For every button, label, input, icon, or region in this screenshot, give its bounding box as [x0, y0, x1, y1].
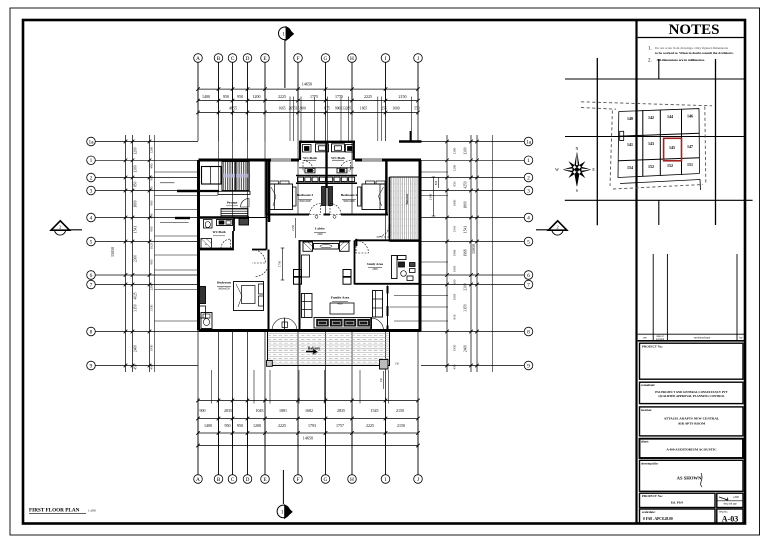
bedroom4 wardrobe — [328, 187, 333, 206]
svg-text:2300: 2300 — [134, 255, 138, 262]
svg-text:3150: 3150 — [464, 304, 468, 311]
family tv unit — [302, 255, 310, 277]
family wall stub — [356, 239, 358, 246]
svg-text:Do not scale from drawings. On: Do not scale from drawings. Only figured… — [655, 46, 729, 50]
svg-text:2: 2 — [90, 175, 93, 181]
svg-text:3150: 3150 — [150, 304, 154, 311]
svg-text:J: J — [417, 56, 419, 62]
bedroom4 right wall — [385, 160, 387, 215]
svg-text:3600x3000: 3600x3000 — [343, 200, 355, 203]
svg-text:1200: 1200 — [253, 423, 261, 428]
svg-text:2150: 2150 — [397, 423, 405, 428]
plot row line 1 — [618, 133, 699, 136]
grid bubble 5 left — [87, 237, 96, 246]
grid bubble 6 left — [87, 271, 96, 280]
svg-text:Bedroom: Bedroom — [217, 281, 231, 285]
svg-text:2150: 2150 — [399, 94, 407, 99]
compass rose — [563, 153, 590, 187]
grid bubble 7 right — [524, 280, 533, 289]
road line vertical d — [715, 59, 717, 225]
grid row 6 right line — [421, 274, 524, 276]
lower stair treads hatch — [221, 208, 248, 210]
grid bubble E top — [261, 54, 270, 63]
svg-text:1665: 1665 — [360, 106, 367, 110]
svg-text:2.: 2. — [648, 59, 652, 64]
svg-text:hc: hc — [205, 243, 207, 246]
svg-text:15050: 15050 — [471, 244, 476, 254]
svg-text:F: F — [297, 477, 300, 483]
svg-text:1: 1 — [90, 158, 93, 164]
svg-text:1200: 1200 — [134, 147, 138, 154]
grid bubble 3 right — [524, 186, 533, 195]
grid row 9 right line — [421, 365, 524, 367]
bedroom4 door — [330, 204, 341, 215]
wall top right — [355, 159, 421, 162]
bedroom3 window — [271, 158, 291, 161]
grid line C — [232, 63, 234, 101]
grid line B interior — [218, 141, 220, 191]
svg-text:1665: 1665 — [453, 265, 457, 272]
porch witness a — [160, 182, 174, 184]
master bed — [234, 282, 264, 311]
grid bubble C bottom — [228, 475, 237, 484]
grid row 5 right line — [421, 241, 524, 243]
svg-text:2,000: 2,000 — [733, 496, 740, 499]
svg-text:1200: 1200 — [150, 146, 154, 153]
bottom dimension ticks — [196, 399, 200, 403]
svg-text:4: 4 — [527, 215, 530, 221]
wc door arc — [221, 239, 231, 249]
porch wall top — [177, 190, 199, 192]
bedroom4 window — [362, 158, 382, 161]
grid bubble 9 right — [524, 361, 533, 370]
svg-text:2225: 2225 — [366, 423, 374, 428]
svg-text:revision/issue: revision/issue — [694, 336, 711, 340]
wall below stair — [199, 216, 250, 218]
svg-text:dwg no.:: dwg no.: — [719, 511, 728, 514]
right dimension vertical fine — [446, 135, 448, 372]
svg-text:revision: revision — [656, 338, 665, 341]
wall bottom — [199, 329, 422, 332]
svg-text:2150: 2150 — [396, 408, 404, 413]
stair treads hatch — [221, 162, 223, 191]
bedroom row bottom wall a — [267, 214, 310, 216]
svg-text:1665: 1665 — [453, 293, 457, 300]
svg-text:5: 5 — [90, 239, 93, 245]
svg-text:2300: 2300 — [464, 283, 468, 290]
grid row 8 right line — [421, 331, 524, 333]
svg-text:1968: 1968 — [464, 249, 468, 256]
family coffee table — [330, 303, 354, 314]
svg-text:H: H — [350, 477, 354, 483]
grid line C interior — [232, 141, 234, 218]
study witness lines — [394, 295, 421, 297]
right dimension vertical outer — [492, 135, 494, 372]
svg-text:AS SHOWN: AS SHOWN — [677, 476, 702, 481]
master dresser — [200, 306, 206, 318]
master wardrobe — [200, 287, 206, 304]
balcony door arcs — [272, 318, 285, 331]
stair block south wall — [199, 190, 220, 192]
stair closet — [202, 167, 222, 185]
svg-text:2225: 2225 — [278, 94, 286, 99]
svg-text:152: 152 — [667, 163, 673, 168]
grid line J — [417, 63, 419, 101]
grid bubble J bottom — [414, 475, 423, 484]
title panel divider — [635, 20, 637, 524]
wall right — [419, 160, 422, 331]
master door arc — [255, 263, 269, 277]
left dimension vertical inner — [154, 135, 156, 372]
grid row 8 left line — [96, 331, 199, 333]
svg-text:450: 450 — [134, 364, 138, 370]
road line vertical c — [658, 59, 660, 79]
svg-text:600: 600 — [453, 279, 457, 284]
grid bubble B bottom — [214, 475, 223, 484]
site boundary inner — [618, 109, 700, 178]
svg-text:2400: 2400 — [134, 345, 138, 352]
svg-text:B: B — [217, 56, 221, 62]
grid row 5 left line — [96, 241, 199, 243]
svg-text:Ed. P0.9: Ed. P0.9 — [671, 501, 683, 505]
svg-text:PROJECT No.:: PROJECT No.: — [642, 345, 663, 349]
grid bubble 1a left — [87, 137, 96, 146]
left dimension vertical coarse — [132, 135, 134, 372]
grid line H interior — [351, 141, 353, 215]
svg-text:152: 152 — [648, 164, 654, 169]
svg-text:N: N — [575, 146, 578, 151]
svg-text:1775: 1775 — [335, 94, 343, 99]
svg-text:WC/Bath: WC/Bath — [213, 230, 226, 234]
svg-text:14650: 14650 — [303, 436, 313, 441]
wall top left — [199, 159, 300, 162]
svg-text:WC/Bath: WC/Bath — [303, 156, 317, 160]
svg-text:1400: 1400 — [202, 94, 210, 99]
bedroom3 bed — [270, 184, 293, 210]
grid bubble 1 right — [524, 156, 533, 165]
svg-text:950: 950 — [223, 94, 229, 99]
svg-text:2835: 2835 — [337, 408, 345, 413]
svg-text:4025: 4025 — [134, 292, 138, 299]
svg-text:950: 950 — [237, 94, 243, 99]
svg-text:14650: 14650 — [302, 82, 312, 87]
grid row 9 left line — [96, 365, 199, 367]
svg-text:1950: 1950 — [453, 344, 457, 351]
grid line D — [247, 63, 249, 101]
svg-text:2835: 2835 — [224, 408, 232, 413]
study left wall — [354, 240, 356, 284]
grid bubble J top — [414, 54, 423, 63]
svg-text:1200: 1200 — [453, 164, 457, 171]
bath block left wall — [299, 141, 301, 160]
svg-text:145: 145 — [669, 145, 675, 150]
grid bubble 7 left — [87, 280, 96, 289]
svg-text:W: W — [555, 167, 559, 172]
bedroom4 desk strip — [358, 187, 362, 206]
svg-text:drawing title:: drawing title: — [641, 461, 658, 465]
bath door arcs — [303, 161, 314, 172]
svg-text:700: 700 — [150, 186, 154, 191]
bath block top wall — [299, 141, 355, 143]
svg-text:1793: 1793 — [308, 423, 316, 428]
svg-text:Study Area: Study Area — [367, 262, 384, 266]
svg-text:FIRST FLOOR PLAN: FIRST FLOOR PLAN — [29, 508, 80, 514]
balcony outline — [268, 331, 390, 366]
right balcony hatch — [391, 178, 418, 241]
svg-text:G: G — [324, 56, 328, 62]
grid bubble H bottom — [348, 475, 357, 484]
svg-text:2: 2 — [556, 225, 558, 230]
svg-text:Family Area: Family Area — [331, 296, 350, 300]
top dimension ticks — [196, 87, 200, 91]
terrace dim — [433, 177, 435, 216]
terrace bottom edge — [390, 240, 421, 242]
terrace left wall — [389, 177, 391, 242]
svg-text:2225: 2225 — [278, 423, 286, 428]
revision table header — [638, 333, 745, 335]
grid bubble D top — [243, 54, 252, 63]
svg-text:8: 8 — [90, 329, 93, 335]
svg-text:6: 6 — [527, 273, 530, 279]
interior dimension 2150 — [295, 218, 297, 238]
grid bubble 6 right — [524, 271, 533, 280]
plot column line 2 — [659, 110, 661, 176]
svg-text:4250: 4250 — [464, 181, 468, 188]
svg-text:900: 900 — [150, 226, 154, 231]
grid row 2 left line — [96, 177, 199, 179]
grid bubble B top — [214, 54, 223, 63]
grid line B — [218, 63, 220, 101]
svg-text:900513285: 900513285 — [335, 106, 351, 110]
grid row 1 right line — [421, 159, 524, 161]
svg-text:818: 818 — [435, 180, 438, 185]
plot 145 highlight — [664, 138, 682, 161]
svg-text:150: 150 — [380, 377, 383, 382]
top witness lines — [197, 85, 199, 116]
svg-text:3600x3000: 3600x3000 — [299, 200, 311, 203]
scale date row — [640, 493, 716, 507]
svg-text:1800: 1800 — [134, 200, 138, 207]
svg-text:A: A — [196, 56, 200, 62]
svg-text:6: 6 — [90, 273, 93, 279]
svg-text:1682: 1682 — [305, 408, 313, 413]
bottom balcony hatch — [268, 334, 390, 364]
svg-text:142: 142 — [648, 115, 654, 120]
grid row 7 left line — [96, 284, 199, 286]
client box — [640, 439, 744, 458]
svg-text:147: 147 — [687, 144, 693, 149]
svg-text:I: I — [385, 477, 387, 483]
svg-text:1950: 1950 — [311, 353, 317, 356]
svg-text:550: 550 — [414, 106, 420, 110]
svg-text:1200: 1200 — [253, 94, 261, 99]
revision table column 2 — [666, 254, 668, 341]
wc shower — [201, 239, 212, 249]
stair door arc — [241, 199, 250, 208]
balcony door arc right — [371, 318, 384, 331]
svg-text:A 400 AUDITORIUM ACOUSTIC: A 400 AUDITORIUM ACOUSTIC — [666, 448, 717, 452]
grid bubble 2 left — [87, 173, 96, 182]
grid row 7 right line — [421, 284, 524, 286]
svg-text:2400: 2400 — [464, 345, 468, 352]
grid bubble 1a right — [524, 137, 533, 146]
plot column line 3 — [681, 109, 683, 175]
grid line G — [325, 63, 327, 101]
grid line A — [197, 63, 199, 101]
svg-text:140: 140 — [627, 116, 633, 121]
grid row 1a right line — [421, 141, 524, 143]
svg-text:1400: 1400 — [204, 423, 212, 428]
svg-text:2400: 2400 — [317, 233, 323, 236]
svg-text:1750: 1750 — [278, 260, 282, 267]
porch witness c — [160, 222, 189, 224]
svg-text:consultant:: consultant: — [641, 383, 655, 387]
grid row 4 left line — [96, 217, 199, 219]
job number cell — [717, 493, 743, 507]
study top wall — [355, 239, 420, 241]
master closet bottom — [201, 313, 212, 329]
stair lower flight — [221, 209, 248, 218]
svg-text:3600x4250: 3600x4250 — [218, 287, 230, 290]
svg-text:Bedroom 3: Bedroom 3 — [297, 193, 314, 197]
grid bubble 8 right — [524, 327, 533, 336]
corridor door arc — [252, 250, 266, 264]
grid line E — [264, 63, 266, 101]
study entry arc — [356, 241, 369, 254]
grid bubble G bottom — [321, 475, 330, 484]
grid bubble F top — [294, 54, 303, 63]
family armchair — [373, 291, 383, 318]
grid bubble 4 left — [87, 213, 96, 222]
revision table column 3 — [736, 254, 738, 341]
section marker right — [536, 221, 567, 235]
svg-text:A-03: A-03 — [722, 514, 738, 523]
section marker left — [51, 221, 82, 235]
svg-text:S: S — [576, 188, 578, 193]
svg-text:900: 900 — [200, 408, 206, 413]
svg-text:AIR APTS ROOM: AIR APTS ROOM — [678, 422, 706, 426]
family area left wall — [299, 240, 301, 331]
svg-text:3: 3 — [527, 188, 530, 194]
wc walls — [199, 218, 235, 249]
svg-text:15050: 15050 — [110, 247, 115, 257]
svg-text:Passage: Passage — [227, 201, 238, 205]
svg-text:154: 154 — [627, 165, 633, 170]
svg-text:1950: 1950 — [150, 344, 154, 351]
grid bubble 4 right — [524, 213, 533, 222]
road line vertical c lower — [658, 200, 660, 225]
balcony posts — [267, 361, 273, 367]
grid bubble 2 right — [524, 173, 533, 182]
svg-text:146: 146 — [687, 114, 693, 119]
svg-text:by: by — [740, 336, 744, 340]
master right wall — [268, 250, 270, 331]
bath dividing wall — [326, 141, 328, 188]
grid line D interior — [247, 141, 249, 218]
svg-text:1881: 1881 — [279, 408, 287, 413]
svg-text:4: 4 — [90, 215, 93, 221]
svg-text:151: 151 — [687, 162, 693, 167]
grid bubble D bottom — [243, 475, 252, 484]
interior dimension 1750 — [282, 248, 284, 280]
svg-text:PROJECT No.:: PROJECT No.: — [642, 494, 663, 498]
consultant box — [640, 382, 744, 403]
svg-text:1: 1 — [527, 158, 530, 164]
svg-text:3: 3 — [90, 188, 93, 194]
terrace parapet top — [399, 140, 422, 143]
svg-text:7: 7 — [90, 282, 93, 288]
svg-text:1541: 1541 — [453, 225, 457, 232]
corridor dark closet — [239, 219, 249, 226]
svg-text:I: I — [385, 56, 387, 62]
terrace door arc — [377, 224, 390, 237]
svg-text:1800: 1800 — [453, 199, 457, 206]
grid bubble H top — [348, 54, 357, 63]
grid line F — [297, 63, 299, 101]
svg-text:1775: 1775 — [310, 94, 318, 99]
svg-text:client:: client: — [641, 440, 649, 444]
svg-text:Bedroom 4: Bedroom 4 — [341, 193, 358, 197]
grid bubble 8 left — [87, 327, 96, 336]
drawing number cell — [717, 509, 743, 524]
terrace dim small — [438, 177, 440, 188]
site access road — [620, 180, 701, 191]
dimension line bottom overall — [198, 432, 418, 434]
svg-text:rev: rev — [643, 336, 647, 340]
grid row 3 left line — [96, 190, 199, 192]
bath vanity left — [299, 167, 327, 169]
svg-text:D: D — [246, 477, 250, 483]
right margin extra witness lines — [421, 171, 448, 173]
site boundary dashed — [581, 102, 712, 189]
balcony small dim — [383, 371, 385, 389]
svg-text:255: 255 — [381, 106, 387, 110]
stair center rail — [235, 162, 237, 191]
grid row 2 right line — [421, 177, 524, 179]
svg-text:QUALIFIED APPROVAL PLANNING CO: QUALIFIED APPROVAL PLANNING CONTROL — [658, 394, 724, 398]
dimension line bottom coarse — [198, 418, 418, 420]
family east wall — [387, 286, 389, 332]
grid bubble 5 right — [524, 237, 533, 246]
svg-text:1300: 1300 — [453, 147, 457, 154]
svg-text:850: 850 — [134, 181, 138, 187]
svg-text:400: 400 — [150, 213, 154, 218]
svg-text:875: 875 — [324, 106, 330, 110]
svg-text:WC/Bath: WC/Bath — [331, 156, 345, 160]
road line horizontal mid — [565, 136, 745, 138]
bedroom4 bed — [362, 184, 385, 210]
grid bubble 1 left — [87, 156, 96, 165]
svg-text:J: J — [417, 477, 419, 483]
svg-text:900: 900 — [150, 259, 154, 264]
left witness ticks — [124, 140, 128, 144]
svg-text:9: 9 — [527, 363, 530, 369]
lobby sideboard left unit — [303, 242, 313, 251]
stair right wall — [268, 160, 271, 222]
grid line I interior — [385, 160, 387, 241]
bedroom row bottom wall b — [324, 214, 331, 216]
bedroom row bottom wall c — [341, 214, 388, 216]
svg-text:5: 5 — [527, 239, 530, 245]
drawing title box — [640, 460, 744, 491]
grid bubble C top — [228, 54, 237, 63]
svg-text:7: 7 — [527, 282, 530, 288]
family sofa bottom — [314, 318, 372, 329]
svg-text:1a: 1a — [526, 139, 532, 145]
revision table column 1 — [652, 254, 654, 341]
road line vertical b — [596, 58, 598, 225]
porch wall bottom — [175, 217, 190, 219]
